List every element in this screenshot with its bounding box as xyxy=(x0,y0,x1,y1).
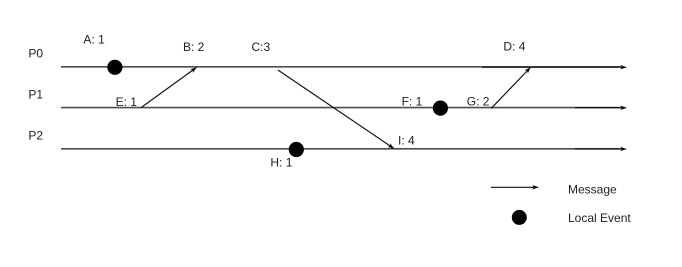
event F dot xyxy=(433,101,448,116)
svg-text:Local Event: Local Event xyxy=(568,211,631,225)
legend local event dot xyxy=(512,210,527,225)
svg-text:B: 2: B: 2 xyxy=(183,40,205,54)
svg-text:H: 1: H: 1 xyxy=(270,155,292,169)
wire timeline P0 xyxy=(61,66,626,68)
svg-text:I: 4: I: 4 xyxy=(398,134,415,148)
wire timeline P2 xyxy=(61,148,626,150)
svg-text:Message: Message xyxy=(568,183,617,197)
legend message arrow xyxy=(491,186,538,188)
event A dot xyxy=(107,60,122,75)
svg-text:C:3: C:3 xyxy=(252,40,271,54)
wire message G to D xyxy=(491,68,530,109)
svg-text:A: 1: A: 1 xyxy=(83,32,105,46)
wire timeline P1 xyxy=(61,107,626,109)
svg-text:P1: P1 xyxy=(28,88,43,102)
wire message C to I xyxy=(278,70,394,149)
svg-text:F: 1: F: 1 xyxy=(402,95,423,109)
svg-text:E: 1: E: 1 xyxy=(116,95,138,109)
svg-text:G: 2: G: 2 xyxy=(467,95,490,109)
svg-text:P2: P2 xyxy=(28,129,43,143)
svg-text:P0: P0 xyxy=(28,47,43,61)
svg-text:D: 4: D: 4 xyxy=(503,40,525,54)
wire message E to B xyxy=(141,68,196,108)
event H dot xyxy=(289,142,304,157)
